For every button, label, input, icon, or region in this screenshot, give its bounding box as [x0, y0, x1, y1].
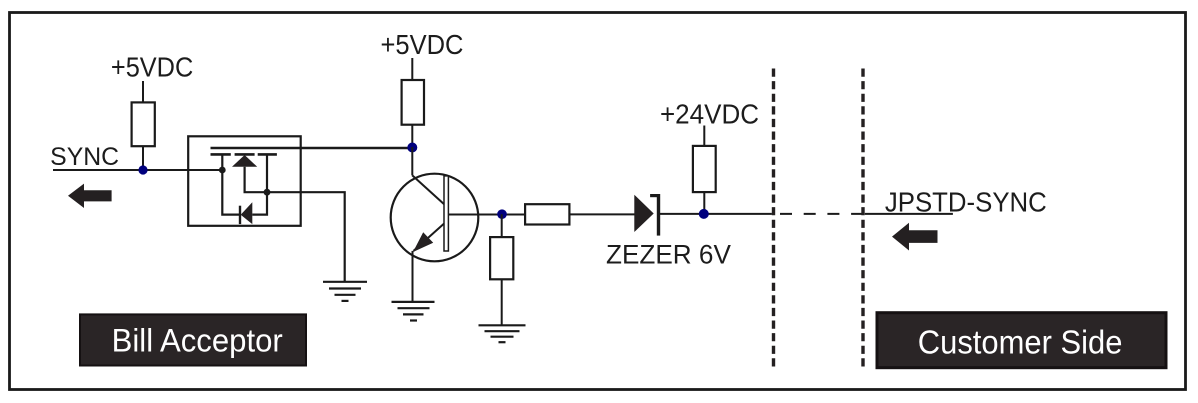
wire: R2 to collector node — [411, 125, 413, 147]
wire: +5VDC to resistor R2 — [411, 58, 413, 80]
node: +24VDC pull-up junction (blue dot) — [699, 209, 709, 219]
label box: Customer Side — [877, 313, 1166, 368]
label box: Bill Acceptor — [80, 314, 306, 365]
wire: R1 to SYNC junction — [142, 146, 144, 170]
zener diode D3 (ZEZER 6V) — [634, 194, 658, 236]
wire: U1 top bar to collector node — [211, 147, 413, 149]
svg-text:Customer Side: Customer Side — [918, 325, 1123, 362]
diode D2 (leftward, inside U1) — [241, 202, 253, 224]
wire: customer side stub — [865, 213, 953, 215]
transistor Q1 — [391, 147, 525, 261]
wire: +5VDC label to resistor R1 — [142, 81, 144, 102]
wire: R3 to zener D3 — [569, 213, 634, 215]
wire: R4 to ground — [501, 279, 503, 325]
diode D1 (upward, inside U1) — [232, 155, 257, 167]
svg-text:JPSTD-SYNC: JPSTD-SYNC — [885, 187, 1047, 218]
diode D2 cathode bar — [239, 206, 241, 224]
node: SYNC junction (blue dot) — [138, 165, 147, 174]
resistor R4 — [490, 237, 513, 279]
resistor R2 — [402, 80, 424, 125]
svg-text:Bill Acceptor: Bill Acceptor — [112, 322, 283, 359]
resistor R5 — [693, 146, 716, 192]
boundary dashed line (bill acceptor side) — [772, 69, 775, 368]
wire: zener to +24VDC node — [660, 213, 772, 215]
U1 electrode bar (left) — [211, 153, 231, 156]
signal direction arrow (JPSTD-SYNC, pointing left) — [892, 223, 938, 251]
wire: U1 output to ground stub — [267, 192, 345, 282]
optocoupler U1 package outline — [188, 136, 301, 226]
signal direction arrow (SYNC, pointing left) — [68, 184, 112, 208]
ground (R4) — [479, 325, 526, 342]
wire: U1 internal left leg — [222, 156, 240, 215]
node: U1 internal junction A (SYNC entry) — [219, 167, 226, 174]
wire: D1 anode leg — [245, 167, 267, 192]
ground (U1 stub) — [323, 282, 367, 301]
wire: R5 to node — [703, 192, 705, 214]
U1 electrode bar (diode D1 cathode) — [235, 153, 255, 156]
boundary dashed line (customer side) — [861, 69, 864, 368]
svg-text:+5VDC: +5VDC — [381, 29, 464, 60]
wire: SYNC rail into optocoupler — [53, 169, 222, 171]
svg-text:SYNC: SYNC — [50, 144, 119, 171]
svg-text:+5VDC: +5VDC — [111, 51, 193, 82]
resistor R1 — [132, 102, 155, 146]
wire: Q1 emitter to ground — [412, 251, 414, 302]
U1 electrode bar (right) — [258, 153, 277, 156]
ground (Q1 emitter) — [392, 302, 435, 321]
svg-text:ZEZER 6V: ZEZER 6V — [606, 239, 731, 270]
node: Q1 output junction (blue dot) — [497, 209, 507, 219]
wire: +24VDC to resistor R5 — [703, 126, 705, 146]
wire: interface crossing (dashed) — [780, 213, 863, 215]
svg-text:+24VDC: +24VDC — [660, 99, 759, 130]
wire: output node to R4 — [501, 214, 503, 237]
resistor R3 — [525, 204, 569, 224]
wire: U1 internal right leg — [252, 156, 267, 215]
node: U1 internal junction B — [264, 189, 271, 196]
node: collector junction (blue dot) — [407, 143, 417, 153]
